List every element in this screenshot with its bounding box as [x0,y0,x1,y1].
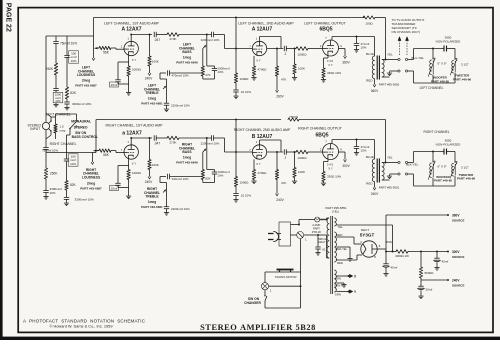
label 40mf #2 [442,260,449,264]
label 100 mmf 10% boxed (left) [69,51,79,63]
label woofer size (R) [438,165,447,169]
capacitor 1000mmf (L bass leg) [207,66,217,79]
svg-text:2200mmf 10%: 2200mmf 10% [171,207,190,211]
wire plate rail (L tone) [131,34,152,36]
ground treble cap (L) [164,108,169,112]
svg-text:10%: 10% [218,70,224,74]
svg-text:47K: 47K [281,181,286,185]
switch monaural-stereo [56,114,78,153]
label 100 mmf 10% boxed (right) [68,154,78,166]
label 1000 ohm (R 1st) [132,171,142,175]
svg-text:3 1/2": 3 1/2" [461,63,469,67]
svg-text:10%: 10% [361,46,367,50]
label 20mf boxed (R 1st) [110,186,119,191]
wire left branch vertical [55,36,57,41]
svg-text:6BQ5: 6BQ5 [315,132,328,138]
svg-text:LEFT CHANNEL, 2ND AUDIO AMP: LEFT CHANNEL, 2ND AUDIO AMP [238,22,294,26]
svg-text:STEREO: STEREO [74,126,88,130]
svg-text:.047: .047 [154,38,160,42]
svg-text:10%: 10% [50,191,56,195]
feedback wire (right) [93,120,282,153]
label right channel (input) [50,142,77,146]
label 360V source [452,213,464,222]
svg-text:LOUDNESS: LOUDNESS [82,175,101,179]
wire plate rail (R tone) [131,137,152,139]
label 7500 ohm feedback (right) [289,115,299,119]
label BLUE (R OT) [366,155,374,159]
stereo input jack [42,120,51,131]
svg-text:1000Ω: 1000Ω [240,181,250,185]
wire right top rail [46,152,93,154]
heater tap X [350,275,358,279]
label stereo [74,126,88,130]
dropping resistor 5600 ohm [419,252,422,281]
label 3650 non-polarized (R) [436,139,462,147]
svg-text:SOURCE: SOURCE [452,284,464,288]
OT B+ arrow (L) [373,79,376,87]
label YEL (R OT) [387,156,393,160]
ground 20mf [418,295,423,299]
svg-text:330Ω 10%: 330Ω 10% [327,71,341,75]
svg-text:PART #63-6681: PART #63-6681 [141,101,163,105]
B+ wire 300V rail [408,251,448,253]
triode 12AX7 (R 1st amp) [124,145,138,159]
label woofer size (L) [438,62,447,66]
svg-text:3300mmf 10%: 3300mmf 10% [72,102,92,106]
label 1.5 meg [60,125,66,133]
label 2200mmf 10% (R treble) [171,207,190,211]
pin labels 12AU7 (L) [249,37,261,63]
label 1000 ohm (R 2nd grid) [240,181,250,185]
svg-text:X Y: X Y [256,162,261,166]
svg-text:.01 10%: .01 10% [240,194,251,198]
pin labels 12AX7 (R) [121,140,137,166]
plug connectors (R) [390,161,414,175]
feedback tie (R) [235,119,237,152]
interlock box [279,222,291,246]
ac plug [268,232,281,242]
label OT supply (L) [371,89,379,93]
svg-text:360V: 360V [385,240,392,244]
svg-text:1000Ω: 1000Ω [132,171,142,175]
label .047 (R) [154,142,160,146]
power transformer primary [327,218,329,258]
label right channel output [298,127,343,131]
svg-text:RIGHT CHANNEL OUTPUT: RIGHT CHANNEL OUTPUT [298,127,343,131]
svg-text:INPUT: INPUT [30,127,40,131]
svg-text:YEL: YEL [387,53,393,57]
label 360V (left screen) [342,61,350,65]
label left channel (input) [46,113,71,117]
svg-text:BLU-YEL: BLU-YEL [412,56,425,60]
svg-text:.01 10%: .01 10% [240,90,251,94]
coupling cap .1 (R) [267,149,296,154]
label 2 amp part TR-2K [312,223,321,234]
resistor 56K (left) [99,46,111,49]
wire jack to right channel [46,130,51,147]
label BLU-YEL (L) [412,56,425,60]
capacitor 47mmf (R) [354,140,359,156]
label RED lower [337,261,343,265]
svg-text:270K: 270K [169,37,176,41]
label left channel output [304,22,346,26]
resistor 82K (right) [65,166,68,190]
ground below 3300mmf #2 (right) [64,202,69,206]
book gutter bar left edge [0,0,3,340]
svg-text:40mf: 40mf [391,266,398,270]
svg-text:100K: 100K [298,170,305,174]
grid resistor 1000 ohm (L output) [296,47,308,51]
label 47K (L 2nd) [281,78,286,82]
svg-text:meg: meg [60,128,66,132]
svg-text:1000Ω: 1000Ω [240,77,250,81]
label 75mmf 10% (left) [60,42,77,46]
svg-text:1000Ω: 1000Ω [298,156,308,160]
wire tone out to 12AU7 grid (L) [225,35,253,49]
svg-text:X Y: X Y [132,162,137,166]
label 4700 ohm (R 2nd) [258,171,268,175]
page number text PAGE 22 [4,3,11,32]
tube name 6BQ5 (right output) [315,132,328,138]
triode 12AX7 (L 1st amp) [124,41,138,55]
label 3300mmf 10% (right) [50,187,63,195]
svg-text:YEL: YEL [338,225,344,229]
tweeter voice coil (R) [450,162,457,179]
label 470mmf 10% (L) [172,74,189,78]
woofer voice coil (L) [428,58,435,77]
svg-text:LEFT CHANNEL: LEFT CHANNEL [420,86,444,90]
pin labels 6BQ5 (L) [320,36,343,67]
svg-text:NON-POLARIZED: NON-POLARIZED [436,142,462,146]
svg-text:PHONO MOTOR: PHONO MOTOR [275,275,296,279]
capacitor 100mmf boxed (left) [64,56,69,62]
svg-text:10%: 10% [70,162,76,166]
svg-text:100K: 100K [152,163,159,167]
label GRN-YEL [334,284,346,288]
svg-text:1meg: 1meg [183,155,191,159]
svg-text:56K: 56K [103,51,110,55]
svg-text:a 12AX7: a 12AX7 [122,131,142,137]
svg-text:RIGHT CHANNEL: RIGHT CHANNEL [424,130,450,134]
series cap 3650 (L) [442,46,450,52]
label 250K (right) [50,172,58,176]
tap wire RED upper [337,237,362,244]
treble pot (L) [160,73,215,103]
photofact credit line [23,319,146,324]
label 240V (L 1st) [145,77,153,81]
label 2200mmf 10% (L bass) [201,38,220,42]
svg-text:MONAURAL: MONAURAL [71,119,91,123]
svg-text:X Y: X Y [132,58,137,62]
output transformer primary (R) [372,159,374,182]
capacitor 470mmf (R treble) [160,174,203,179]
ground 100K (R output) [292,180,297,184]
svg-text:A 12AX7: A 12AX7 [121,27,141,33]
wire connector to primary [304,234,329,258]
svg-text:47K: 47K [281,78,286,82]
label 1500 mmf 10% boxed (left) [53,92,63,103]
plate rail 6BQ5 to OT (R) [332,139,375,159]
svg-text:GRN-YEL: GRN-YEL [334,284,346,288]
label tweeter part (L) [453,74,471,82]
svg-text:PART #49-85: PART #49-85 [431,79,449,83]
resistor 270K (R bass) [167,136,179,140]
svg-text:7500Ω: 7500Ω [289,115,299,119]
label (YEL) top [332,210,339,214]
label left channel (speakers) [420,86,444,90]
svg-text:240V: 240V [276,198,284,202]
output transformer secondary (R) [382,162,396,180]
label left channel loudness [75,66,97,88]
feedback wire (left) [94,18,366,37]
ground below 3300mmf (left) [64,106,69,110]
capacitor 3300mmf #2 (right) [64,190,69,202]
triode 12AU7 (L) [252,41,266,55]
svg-text:470mmf 10%: 470mmf 10% [172,74,189,78]
svg-text:4700Ω: 4700Ω [258,171,268,175]
svg-text:PART #63-6649: PART #63-6649 [176,160,198,164]
grid return 1000 ohm (R 2nd) [234,151,237,186]
label 56K (right) [103,153,110,157]
wire left 82K vertical [66,61,68,87]
label 4000 ohm 1W [395,254,409,258]
svg-text:X Y: X Y [328,167,333,171]
label tweeter size (L) [461,63,469,67]
svg-text:240V: 240V [371,192,379,196]
svg-text:100K: 100K [152,59,159,63]
label 2200mmf 10% (R bass) [201,142,220,146]
svg-text:GRN: GRN [335,277,341,281]
svg-text:CHANGER: CHANGER [244,301,261,305]
label .1 (L) [284,52,287,56]
label 47mmf 10% (R) [361,145,370,153]
svg-text:.1: .1 [284,52,287,56]
OT part number (L) [379,83,400,87]
svg-text:LOUDNESS: LOUDNESS [77,73,96,77]
svg-text:10%: 10% [361,149,367,153]
svg-text:.01: .01 [322,248,327,252]
svg-text:NON-POLARIZED: NON-POLARIZED [436,39,462,43]
svg-text:6" X 9": 6" X 9" [438,165,447,169]
label 82K (left) [70,91,77,95]
label RED-YEL [336,247,348,251]
output transformer core (L) [377,56,379,80]
bass pot (L) [203,35,207,67]
svg-text:360V: 360V [452,213,460,217]
svg-text:2200mmf 10%: 2200mmf 10% [201,38,220,42]
label 270K (R) [169,140,176,144]
svg-text:20mf: 20mf [111,83,118,87]
svg-text:RED: RED [337,261,343,265]
svg-text:20mf: 20mf [426,288,433,292]
label part #95-5851 [325,206,347,210]
filter cap 20mf [418,280,425,295]
svg-text:RED: RED [366,182,373,186]
label 100 ohm feedback (left) [365,21,373,25]
resistor 270K (L bass) [167,33,179,37]
tap wire GRN-YEL [337,283,347,287]
ground 40mf #1 [383,272,388,276]
svg-text:PART #63-6687: PART #63-6687 [80,187,102,191]
label RECT [361,228,369,232]
svg-text:© Howard W. Sams & Co., Inc. 1: © Howard W. Sams & Co., Inc. 1959 [50,324,113,329]
coupling cap .047 (R) [154,135,167,140]
coupling cap .1 (L) [267,46,296,51]
wire loudness wiper to 56K (left) [98,47,100,49]
plate load resistor 100K (L 1st) [148,34,151,66]
label GRN upper [335,277,341,281]
svg-text:BLUE: BLUE [366,155,374,159]
rectifier tube 5Y3GT [360,240,381,259]
copyright line [50,324,113,329]
svg-text:75mmf 10%: 75mmf 10% [42,148,58,152]
OT part number (R) [379,186,400,190]
svg-text:82K: 82K [205,177,210,181]
label .01 10% (L) [240,90,251,94]
label 100K (L 1st) [152,59,159,63]
OT secondary ground (L) [387,72,392,76]
svg-text:47K: 47K [205,73,210,77]
output transformer primary (L) [372,56,374,79]
360V source rail [386,214,449,216]
label 82K (right) [70,183,77,187]
svg-text:TREBLE: TREBLE [145,195,159,199]
svg-text:TREBLE: TREBLE [145,91,159,95]
label sw on bass control [72,131,98,139]
label 75mmf 10% (right) [42,148,58,152]
label 260V (R 2nd) [276,198,284,202]
svg-text:PART #63-6649: PART #63-6649 [176,60,198,64]
ground 100K (L output) [292,76,297,80]
bass pot (R) [203,138,207,170]
svg-text:250K: 250K [46,67,54,71]
label 3650 non-polarized (L) [436,36,462,44]
svg-text:SOURCE: SOURCE [452,255,464,259]
label monaural [71,119,91,123]
label .1 (R) [284,156,287,160]
svg-text:ON CHASSIS 16C7): ON CHASSIS 16C7) [392,30,420,34]
woofer voice coil (R) [428,161,435,180]
title STEREO AMPLIFIER 5B28 [200,323,316,332]
label 240V feed (phono area) [0,0,1,1]
label 240V (R 1st) [145,180,153,184]
filter cap 40mf #2 [434,252,441,267]
label 47K (L bass leg) [205,73,210,77]
svg-text:3300mmf 10%: 3300mmf 10% [75,197,95,201]
resistor 250K (right) [44,168,47,179]
svg-text:360V: 360V [371,89,379,93]
svg-text:BLK-YEL: BLK-YEL [406,162,419,166]
label 40mf #1 [391,266,398,270]
ground 40mf #2 [434,266,439,270]
speaker wiring loop (L) [414,48,456,83]
svg-text:4700Ω: 4700Ω [258,68,268,72]
label LEFT channel treble [141,84,163,106]
svg-text:RED: RED [366,79,373,83]
svg-text:82K: 82K [70,91,77,95]
label left channel 1st audio amp [104,22,159,26]
tweeter voice coil (L) [450,59,457,76]
svg-text:STEREO AMPLIFIER 5B28: STEREO AMPLIFIER 5B28 [200,323,316,332]
cathode resistor 330 ohm (L output) [322,56,328,78]
fuse 2 amp [315,217,329,222]
svg-text:250K: 250K [50,172,58,176]
svg-text:56K: 56K [103,153,110,157]
svg-text:2200mmf 10%: 2200mmf 10% [171,104,190,108]
label 1000 ohm (L 1st) [132,68,142,72]
svg-text:RED-YEL: RED-YEL [336,247,348,251]
screen supply arrow (R) [339,152,347,162]
label tweeter size (R) [461,166,469,170]
pentode 6BQ5 (L) [323,40,339,56]
svg-text:RIGHT CHANNEL: RIGHT CHANNEL [50,142,77,146]
changer switch [264,295,267,301]
label RIGHT channel bass [176,143,198,165]
capacitor 3300mmf (left) [64,99,69,106]
label 3300mmf 10% #2 (right) [75,197,95,201]
svg-text:10%: 10% [71,59,77,63]
label 100K (R output) [298,170,305,174]
loudness pot (left) [92,36,99,61]
svg-text:82K: 82K [70,183,77,187]
resistor 56K (right) [99,149,111,152]
capacitor 1000mmf (R bass leg) [207,170,217,183]
svg-text:LEFT CHANNEL, 1ST AUDIO AMP: LEFT CHANNEL, 1ST AUDIO AMP [104,22,159,26]
speaker wiring loop (R) [414,151,456,186]
bypass cap 20mf (L 1st) [115,62,128,84]
series cap 3650 (R) [442,149,450,155]
svg-text:330Ω 10%: 330Ω 10% [327,175,341,179]
cathode resistor 4700 ohm (L 2nd) [252,56,255,76]
svg-text:PART #63-6687: PART #63-6687 [75,83,97,87]
wire to bass cap (R) [179,137,212,139]
power transformer core [331,216,333,294]
ground 6BQ5 cathode (L) [321,78,326,82]
tap wire GRN upper [337,275,350,277]
ground .01 cap (L) [233,95,238,99]
svg-text:SOURCE: SOURCE [452,218,464,222]
motor feed wire [269,285,302,287]
label 1000 ohm (R output grid) [298,156,308,160]
svg-text:100K: 100K [298,67,305,71]
OT secondary ground (R) [387,175,392,179]
pentode 6BQ5 (R) [323,144,339,160]
label 20mf [426,288,433,292]
svg-text:A 12AU7: A 12AU7 [252,27,273,33]
output transformer secondary (L) [382,59,396,77]
svg-text:2200mmf 10%: 2200mmf 10% [201,142,220,146]
tube name 6BQ5 (left output) [319,27,332,33]
label phono motor [275,275,296,279]
grid leak 100K (R output) [293,151,296,179]
ground below 3300mmf (right) [43,195,48,199]
svg-text:10%: 10% [218,174,224,178]
label right channel (speakers) [424,130,450,134]
label 270K (L) [169,37,176,41]
plate load 47K (R 2nd) [275,151,278,196]
svg-text:GRAY: GRAY [318,240,325,244]
label .01 line cap [322,248,327,252]
output transformer core (R) [377,159,379,183]
svg-text:LEFT CHANNEL OUTPUT: LEFT CHANNEL OUTPUT [304,22,346,26]
capacitor 75mmf (right) [43,147,48,168]
feedback resistor 7500 ohm (right) [288,118,386,163]
svg-text:270K: 270K [169,140,176,144]
capacitor 470mmf (L treble) [160,70,203,75]
tap wire GRN lower [337,291,350,293]
svg-text:RED: RED [337,233,343,237]
svg-text:1000Ω: 1000Ω [298,53,308,57]
